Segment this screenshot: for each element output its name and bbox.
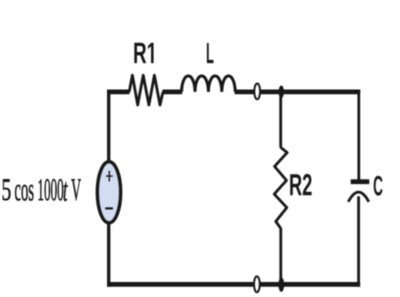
source plus sign [106,171,113,182]
label t [64,182,68,201]
junction dot bottom [278,277,284,291]
capacitor C curved plate [348,192,369,202]
terminal node bottom [254,276,260,292]
wire R2 branch lower [279,228,282,284]
wire terminal to top-right corner [261,90,361,95]
terminal node top [254,84,260,100]
wire bottom left of terminal [107,282,253,287]
inductor L [182,76,236,92]
junction dot top [279,86,284,99]
label C [374,176,383,196]
capacitor C top plate [351,179,370,184]
wire left branch [107,90,110,287]
source minus sign [105,207,113,209]
wire top left segment [107,90,130,95]
wire right branch lower [357,196,360,286]
label R2 [290,174,311,195]
label cos [15,185,33,201]
wire right branch upper [357,90,360,180]
label V [71,179,81,200]
resistor R1 [129,75,163,105]
wire between L and terminal [235,90,254,95]
source V1 ellipse [97,162,120,223]
label 5 [3,179,11,200]
resistor R2 [274,147,287,228]
wire bottom right of terminal [260,282,360,287]
label 1000 [39,179,64,200]
label L [207,43,214,63]
wire between R1 and L [162,90,182,95]
label R1 [134,43,153,63]
wire R2 branch upper [279,92,282,148]
